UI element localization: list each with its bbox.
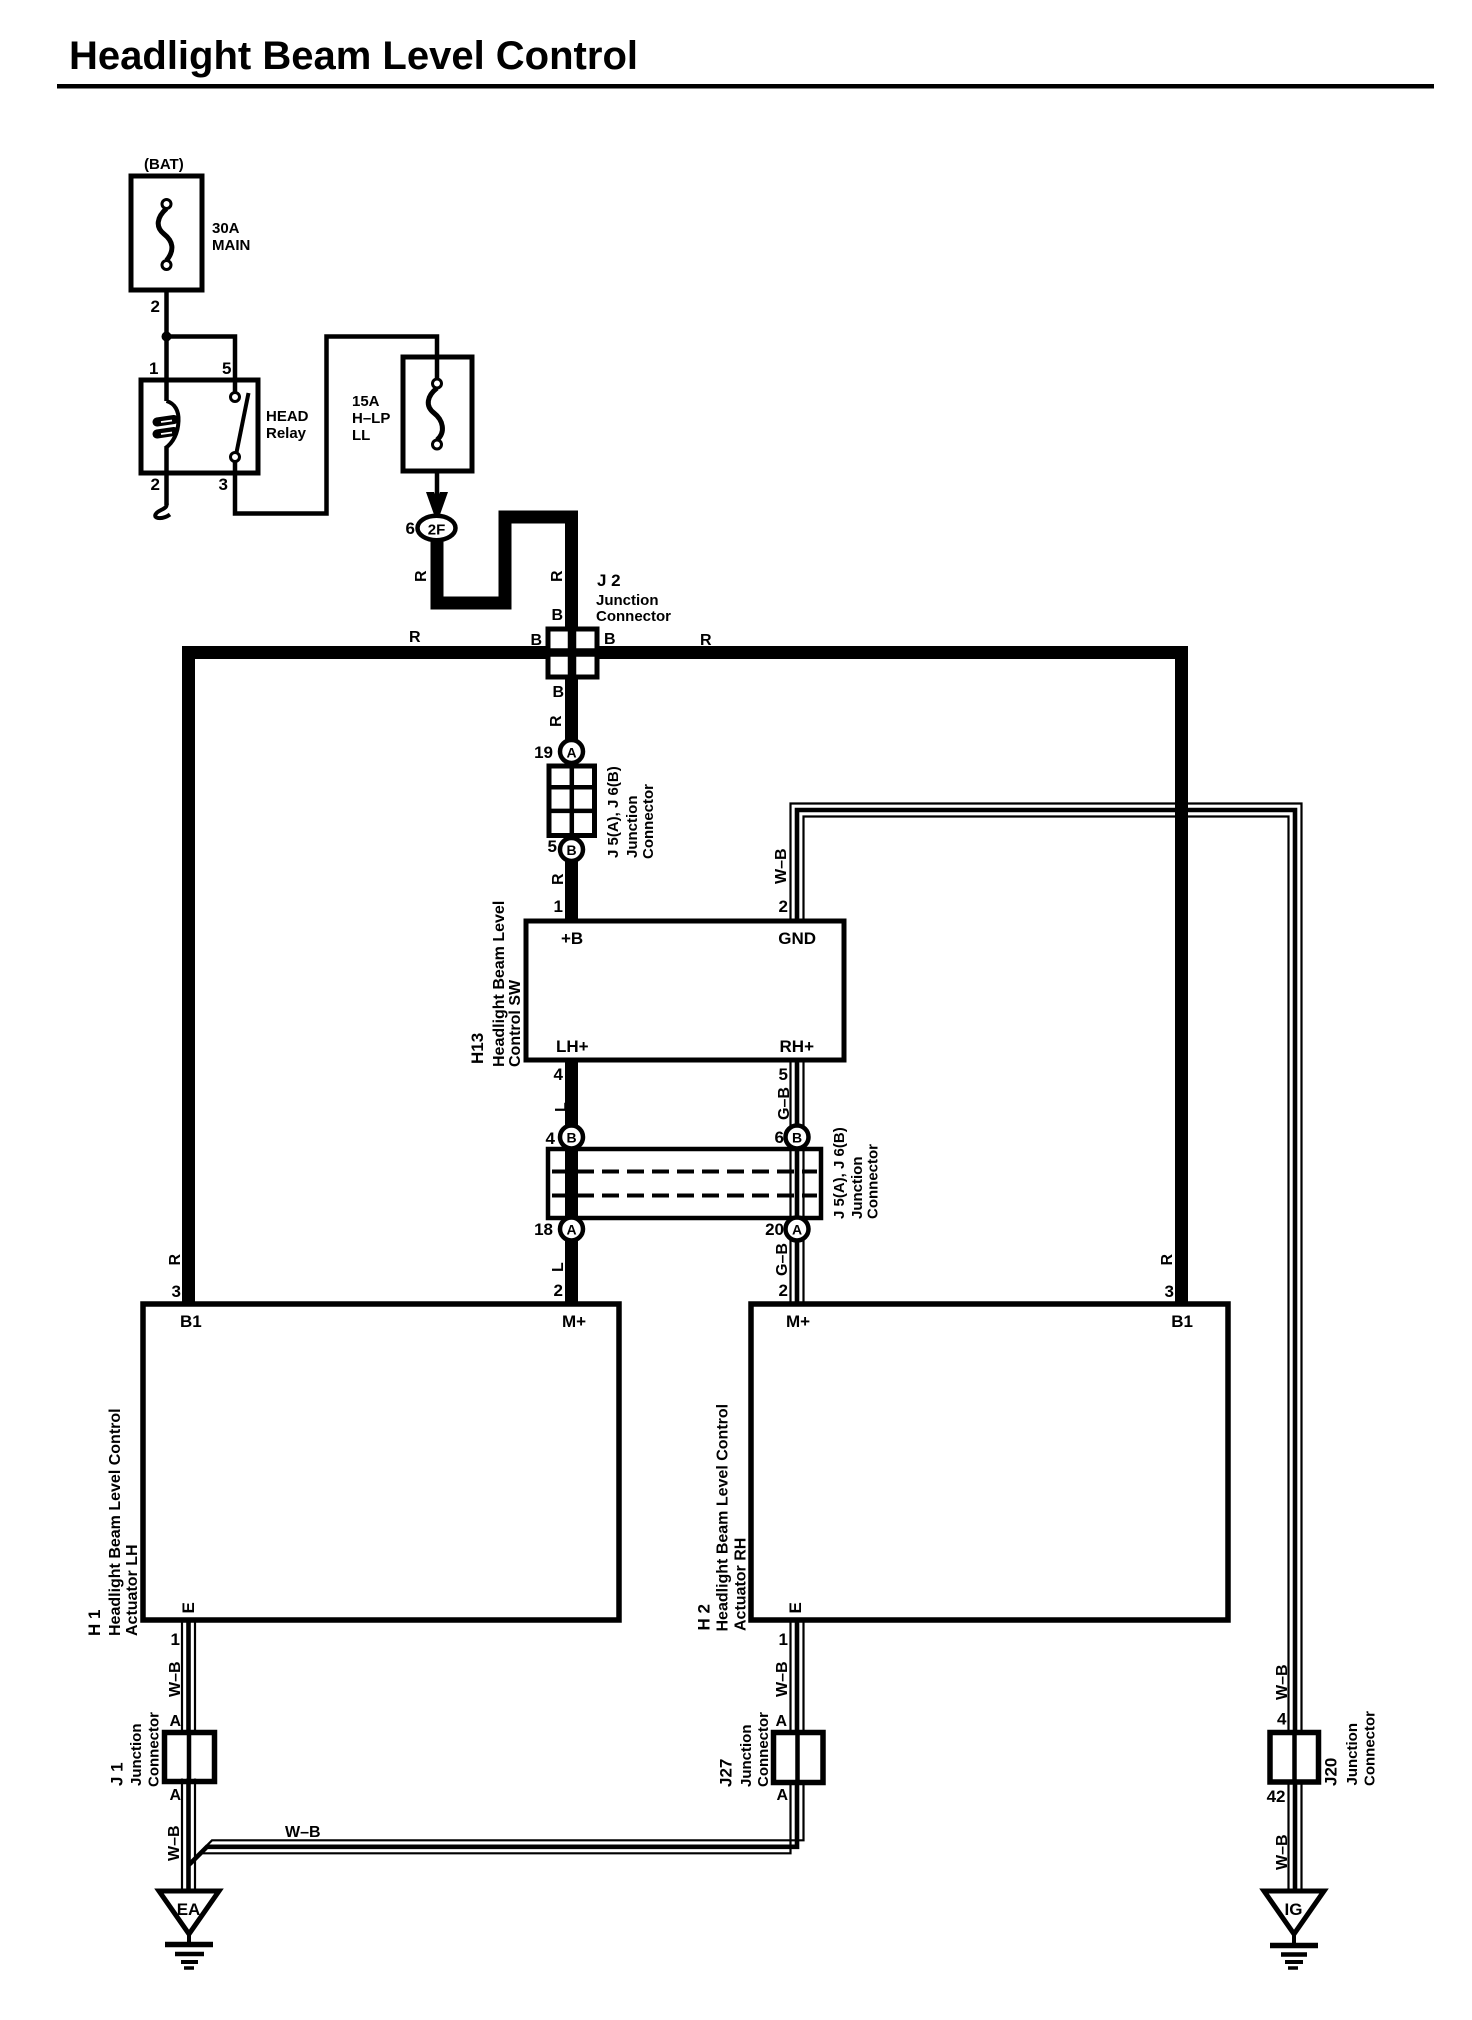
svg-text:Actuator LH: Actuator LH (124, 1544, 141, 1636)
svg-text:H 2: H 2 (695, 1604, 714, 1630)
svg-text:J 2: J 2 (597, 571, 621, 590)
junction connector J20 (1270, 1733, 1319, 1783)
svg-text:A: A (169, 1713, 181, 1730)
svg-text:2: 2 (151, 297, 160, 316)
svg-text:LH+: LH+ (556, 1037, 589, 1056)
svg-text:Headlight Beam Level: Headlight Beam Level (491, 901, 508, 1067)
svg-text:L: L (550, 1262, 567, 1272)
svg-text:Connector: Connector (865, 1144, 882, 1219)
svg-text:2: 2 (151, 475, 160, 494)
wire relay coil to ground tail (164, 448, 169, 505)
thick wire jog 2F to J2 (437, 517, 572, 632)
svg-text:B: B (604, 631, 616, 648)
junction connector J5(A) J6(B) lower long box (548, 1149, 821, 1218)
svg-text:3: 3 (219, 475, 228, 494)
wire J2 to ring 19A (565, 677, 578, 741)
svg-text:L: L (553, 1102, 570, 1112)
svg-text:W–B: W–B (166, 1825, 183, 1861)
svg-text:Connector: Connector (146, 1712, 163, 1787)
svg-text:Junction: Junction (849, 1157, 866, 1220)
svg-text:B: B (551, 607, 563, 624)
svg-text:4: 4 (554, 1065, 564, 1084)
svg-text:GND: GND (778, 929, 816, 948)
svg-text:MAIN: MAIN (212, 237, 250, 254)
svg-text:5: 5 (779, 1065, 788, 1084)
junction node dot (162, 332, 172, 342)
ring terminal B pin 4 (560, 1126, 583, 1149)
ring terminal A pin 20 (786, 1218, 809, 1241)
wire through long box left (565, 1149, 578, 1218)
fuse 15A box (403, 357, 472, 471)
svg-text:15A: 15A (352, 393, 380, 410)
svg-text:A: A (566, 745, 576, 761)
svg-text:A: A (775, 1713, 787, 1730)
svg-text:2F: 2F (428, 522, 446, 539)
svg-text:20: 20 (765, 1220, 784, 1239)
svg-text:J20: J20 (1322, 1758, 1341, 1786)
svg-text:B1: B1 (180, 1312, 202, 1331)
relay switch contacts (231, 393, 240, 402)
svg-text:A: A (169, 1787, 181, 1804)
svg-text:Connector: Connector (596, 608, 671, 625)
svg-text:H 1: H 1 (85, 1610, 104, 1636)
svg-text:Actuator RH: Actuator RH (733, 1538, 750, 1631)
wire LH+ to ring B4 (565, 1060, 578, 1126)
svg-text:30A: 30A (212, 220, 240, 237)
svg-text:Relay: Relay (266, 425, 307, 442)
ground tail squiggle (155, 503, 170, 518)
svg-text:R: R (548, 715, 565, 727)
fuse 30A bottom terminal (162, 261, 171, 270)
svg-text:H13: H13 (468, 1033, 487, 1064)
svg-text:42: 42 (1267, 1787, 1286, 1806)
relay coil (165, 401, 179, 449)
svg-text:E: E (179, 1602, 198, 1613)
svg-text:+B: +B (561, 929, 583, 948)
fuse 15A element (428, 388, 442, 440)
svg-text:Junction: Junction (596, 592, 659, 609)
svg-text:2: 2 (554, 1281, 563, 1300)
wire through long box right (789, 1149, 791, 1218)
svg-text:W–B: W–B (774, 1661, 791, 1697)
svg-text:R: R (700, 632, 712, 649)
svg-text:R: R (549, 570, 566, 582)
headlight beam level control actuator LH H1 (143, 1304, 619, 1620)
svg-text:B: B (530, 632, 542, 649)
svg-text:J 5(A), J 6(B): J 5(A), J 6(B) (831, 1127, 848, 1219)
wire relay pin3 to fuse 15A (235, 337, 437, 514)
svg-text:Connector: Connector (1362, 1711, 1379, 1786)
svg-text:Junction: Junction (1344, 1723, 1361, 1786)
wire B5 ring to H13 (565, 861, 578, 921)
svg-text:E: E (786, 1602, 805, 1613)
wire RH+ to ring B6 (G-B) (789, 1060, 791, 1126)
svg-text:R: R (1159, 1254, 1176, 1266)
svg-text:M+: M+ (562, 1312, 586, 1331)
svg-text:Headlight Beam Level Control: Headlight Beam Level Control (715, 1404, 732, 1632)
svg-text:6: 6 (406, 519, 415, 538)
svg-text:2: 2 (779, 897, 788, 916)
main bus wire R (189, 653, 1182, 1306)
svg-text:R: R (413, 570, 430, 582)
wire A20 to H2 M+ (G-B) (789, 1241, 791, 1306)
svg-text:1: 1 (171, 1630, 180, 1649)
svg-text:B: B (566, 842, 576, 858)
svg-text:B: B (552, 684, 564, 701)
relay switch arm (237, 393, 249, 453)
wire H1 E to J1 (W-B) (181, 1620, 183, 1733)
svg-text:A: A (792, 1222, 802, 1238)
svg-text:G–B: G–B (776, 1087, 793, 1120)
headlight beam level control switch H13 (526, 921, 844, 1060)
svg-text:W–B: W–B (1274, 1664, 1291, 1700)
svg-text:Junction: Junction (624, 796, 641, 859)
fuse 30A top terminal (162, 200, 171, 209)
svg-text:W–B: W–B (773, 848, 790, 884)
headlight beam level control actuator RH H2 (751, 1304, 1228, 1620)
wire J1 to EA ground (W-B) (181, 1779, 183, 1892)
junction connector J5(A) J6(B) upper (549, 766, 595, 836)
svg-text:Connector: Connector (755, 1712, 772, 1787)
svg-text:A: A (566, 1222, 576, 1238)
svg-text:B: B (566, 1130, 576, 1146)
svg-text:HEAD: HEAD (266, 408, 309, 425)
svg-text:1: 1 (149, 359, 158, 378)
svg-text:EA: EA (177, 1900, 201, 1919)
ring terminal B pin 5 (560, 838, 583, 861)
svg-text:W–B: W–B (167, 1661, 184, 1697)
svg-text:R: R (550, 873, 567, 885)
ring terminal A pin 18 (560, 1218, 583, 1241)
svg-text:4: 4 (1277, 1710, 1287, 1729)
GND wire W-B from H13 up over to right side (791, 804, 1302, 1734)
svg-text:M+: M+ (786, 1312, 810, 1331)
svg-text:J 5(A), J 6(B): J 5(A), J 6(B) (605, 766, 622, 858)
svg-text:R: R (167, 1254, 184, 1266)
junction connector J2 (548, 629, 597, 677)
fuse 30A element (158, 209, 172, 261)
svg-text:J27: J27 (717, 1759, 736, 1787)
svg-text:1: 1 (554, 897, 563, 916)
svg-text:3: 3 (1165, 1282, 1174, 1301)
svg-text:W–B: W–B (285, 1824, 321, 1841)
wire branch to relay pin 5 (167, 337, 236, 393)
svg-text:Connector: Connector (640, 784, 657, 859)
svg-text:A: A (776, 1787, 788, 1804)
fuse 15A top terminal (433, 379, 442, 388)
svg-text:Control SW: Control SW (507, 979, 524, 1067)
svg-text:B1: B1 (1171, 1312, 1193, 1331)
connector 2F (418, 516, 456, 540)
svg-text:Junction: Junction (738, 1725, 755, 1788)
relay box (141, 380, 258, 473)
svg-text:(BAT): (BAT) (144, 156, 184, 173)
svg-text:LL: LL (352, 427, 370, 444)
title rule (57, 84, 1434, 89)
svg-text:2: 2 (779, 1281, 788, 1300)
svg-text:H–LP: H–LP (352, 410, 390, 427)
junction connector J27 (774, 1733, 824, 1783)
arrow into 2F (435, 471, 440, 500)
wire fuse to relay coil (164, 290, 169, 401)
ground IG (1264, 1891, 1324, 1934)
ring terminal B pin 6 (786, 1126, 809, 1149)
svg-text:Junction: Junction (128, 1724, 145, 1787)
wire A18 to H1 M+ (565, 1241, 578, 1306)
svg-text:IG: IG (1285, 1900, 1303, 1919)
svg-text:4: 4 (546, 1129, 556, 1148)
svg-text:J 1: J 1 (108, 1762, 127, 1786)
fuse 15A bottom terminal (433, 440, 442, 449)
svg-text:R: R (409, 629, 421, 646)
wire J27 down and left to EA ground (W-B) (195, 1780, 804, 1857)
svg-text:3: 3 (172, 1282, 181, 1301)
svg-text:RH+: RH+ (780, 1037, 815, 1056)
svg-text:19: 19 (534, 743, 553, 762)
svg-text:B: B (792, 1130, 802, 1146)
wire J20 to IG ground (W-B) (1287, 1781, 1289, 1892)
svg-text:18: 18 (534, 1220, 553, 1239)
svg-text:G–B: G–B (774, 1243, 791, 1276)
svg-text:Headlight Beam Level Control: Headlight Beam Level Control (107, 1408, 124, 1636)
ground EA (159, 1891, 219, 1934)
svg-text:5: 5 (222, 359, 231, 378)
svg-text:1: 1 (779, 1630, 788, 1649)
wire H2 E to J27 (W-B) (789, 1620, 791, 1734)
ring terminal A pin 19 (560, 740, 583, 763)
fuse 30A MAIN box (131, 176, 202, 290)
svg-text:5: 5 (548, 837, 557, 856)
junction connector J1 (165, 1733, 215, 1782)
svg-text:6: 6 (775, 1128, 784, 1147)
svg-text:Headlight Beam Level Control: Headlight Beam Level Control (69, 34, 638, 78)
